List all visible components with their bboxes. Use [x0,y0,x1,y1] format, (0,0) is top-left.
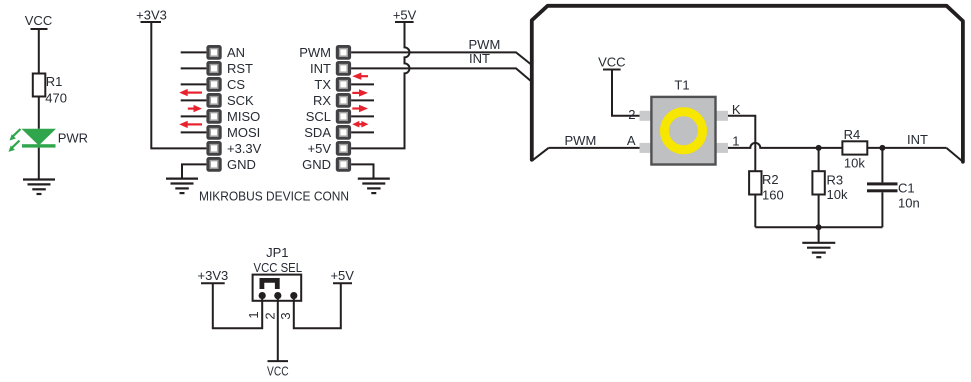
svg-text:+3V3: +3V3 [198,268,229,283]
wire R1 to LED [38,97,40,129]
svg-text:R1: R1 [46,74,63,89]
wire VCC to T1 pin 2 [612,70,640,116]
svg-text:A: A [627,133,636,148]
svg-text:VCC: VCC [598,55,625,70]
svg-text:10k: 10k [827,187,848,202]
svg-text:C1: C1 [898,181,915,196]
svg-text:PWM: PWM [299,45,331,60]
svg-text:RX: RX [313,93,331,108]
svg-text:CS: CS [227,77,245,92]
svg-text:SDA: SDA [304,125,331,140]
red arrow SDA (bidirectional) [352,121,368,128]
LED PWR (green) [22,129,57,148]
jumper pin 2 [274,292,281,299]
jumper JP1 body [253,275,302,301]
wire GND right header [351,164,373,178]
wire VCC to R1 [38,29,40,74]
wire +5V vertical with hops over PWM and INT [351,22,409,148]
wire CS [181,83,207,85]
svg-text:2: 2 [263,312,278,319]
junction node (R4/C1/INT) [879,145,885,151]
wire JP1 pin2 to VCC [277,296,279,362]
node VCC (host) [598,55,625,70]
svg-text:+3V3: +3V3 [136,8,167,23]
svg-text:160: 160 [762,187,784,202]
svg-text:INT: INT [469,51,490,66]
svg-text:AN: AN [227,45,245,60]
node +3V3 (JP1) [198,268,229,283]
header right pin column (8 pins) [336,45,351,172]
red arrow TX (out) [352,89,368,96]
wire funnel right (INT exit) [946,148,962,161]
wire TX [351,83,374,85]
red arrow INT (in) [352,73,368,80]
wire GND left header [182,164,206,178]
svg-text:470: 470 [45,90,67,105]
svg-text:+3.3V: +3.3V [227,141,262,156]
resistor R2 [749,171,761,194]
wire K to R2 [728,116,755,171]
host board outline [532,6,963,162]
svg-text:PWR: PWR [58,131,88,146]
red arrow CS (in) [179,89,202,96]
wire SCK [181,99,207,101]
wire R4 to INT junction [867,147,946,149]
junction node (pin1/R3/R4) [816,145,822,151]
node VCC (LED branch) [25,13,52,29]
wire R3 to rail [818,195,820,228]
wire RST [181,67,207,69]
junction node (rail/ground) [816,224,822,230]
wire ground rail [755,226,882,228]
svg-text:1: 1 [732,133,739,148]
capacitor C1 [867,182,898,192]
svg-text:INT: INT [310,61,331,76]
ground (host) [802,243,835,257]
svg-text:VCC: VCC [267,364,289,379]
svg-text:+5V: +5V [308,141,332,156]
svg-text:JP1: JP1 [266,245,288,260]
node +3V3 (header) [136,8,167,23]
wire INT to host [351,68,531,81]
svg-text:2: 2 [628,107,635,122]
svg-text:MIKROBUS DEVICE CONN: MIKROBUS DEVICE CONN [199,188,349,203]
svg-text:RST: RST [227,61,253,76]
LED emission arrow 1 [10,129,21,141]
ground (left header) [166,179,198,194]
jumper cap (1-2) [262,280,277,289]
wire pin 1 to R4 with hop over K wire [728,143,842,148]
svg-text:GND: GND [302,157,331,172]
node +5V (header top) [393,7,417,22]
node VCC (JP1 out) [267,361,289,379]
wire AN [181,51,207,53]
svg-text:TX: TX [314,77,331,92]
ground (LED branch) [23,180,55,195]
red arrow SCK (out) [188,105,202,112]
wire JP1 pin1 to +3V3 [213,283,262,328]
red arrow MISO (in) [179,121,202,128]
svg-text:1: 1 [246,311,261,318]
optocoupler T1 [640,97,729,165]
resistor R3 [812,171,824,194]
wire RX [351,99,374,101]
svg-text:10n: 10n [898,195,920,210]
svg-text:10k: 10k [844,156,865,171]
svg-text:MISO: MISO [227,109,260,124]
wire MISO [181,115,207,117]
svg-text:R2: R2 [762,172,779,187]
svg-text:+5V: +5V [393,7,417,22]
svg-text:MOSI: MOSI [227,125,260,140]
svg-text:INT: INT [907,132,928,147]
red arrow RX (out) [352,105,368,112]
ground (right header) [358,179,390,194]
wire funnel left (PWM entry) [533,148,549,160]
wire SDA [351,131,374,133]
wire JP1 pin3 to +5V [294,283,341,328]
wire junction to C1 [881,148,883,183]
wire R2 to rail [754,195,756,228]
svg-text:GND: GND [227,157,256,172]
svg-text:VCC SEL: VCC SEL [254,260,303,275]
svg-text:K: K [732,102,741,117]
svg-text:SCL: SCL [306,109,331,124]
wire +3V3 to +3.3V pin [151,22,206,148]
svg-text:T1: T1 [674,77,689,92]
svg-text:SCK: SCK [227,93,254,108]
node +5V (JP1) [330,268,354,283]
svg-text:PWM: PWM [565,133,597,148]
resistor R1 [33,74,46,97]
svg-text:R3: R3 [827,173,844,188]
resistor R4 [842,141,867,154]
jumper pin 3 [290,292,297,299]
svg-text:VCC: VCC [25,13,52,28]
svg-text:3: 3 [278,312,293,319]
wire rail to ground [818,227,820,243]
wire PWM to host [351,52,531,64]
wire junction to R3 [818,148,820,171]
wire MOSI [181,131,207,133]
wire C1 to rail [881,192,883,227]
wire SCL [351,115,374,117]
header left pin column (8 pins) [206,45,221,172]
jumper pin 1 [259,292,266,299]
svg-text:PWM: PWM [469,37,501,52]
svg-text:+5V: +5V [330,268,354,283]
LED emission arrow 2 [9,141,20,152]
svg-text:R4: R4 [844,127,861,142]
wire LED to ground [38,148,40,180]
wire PWM to T1 pin A [549,147,640,149]
